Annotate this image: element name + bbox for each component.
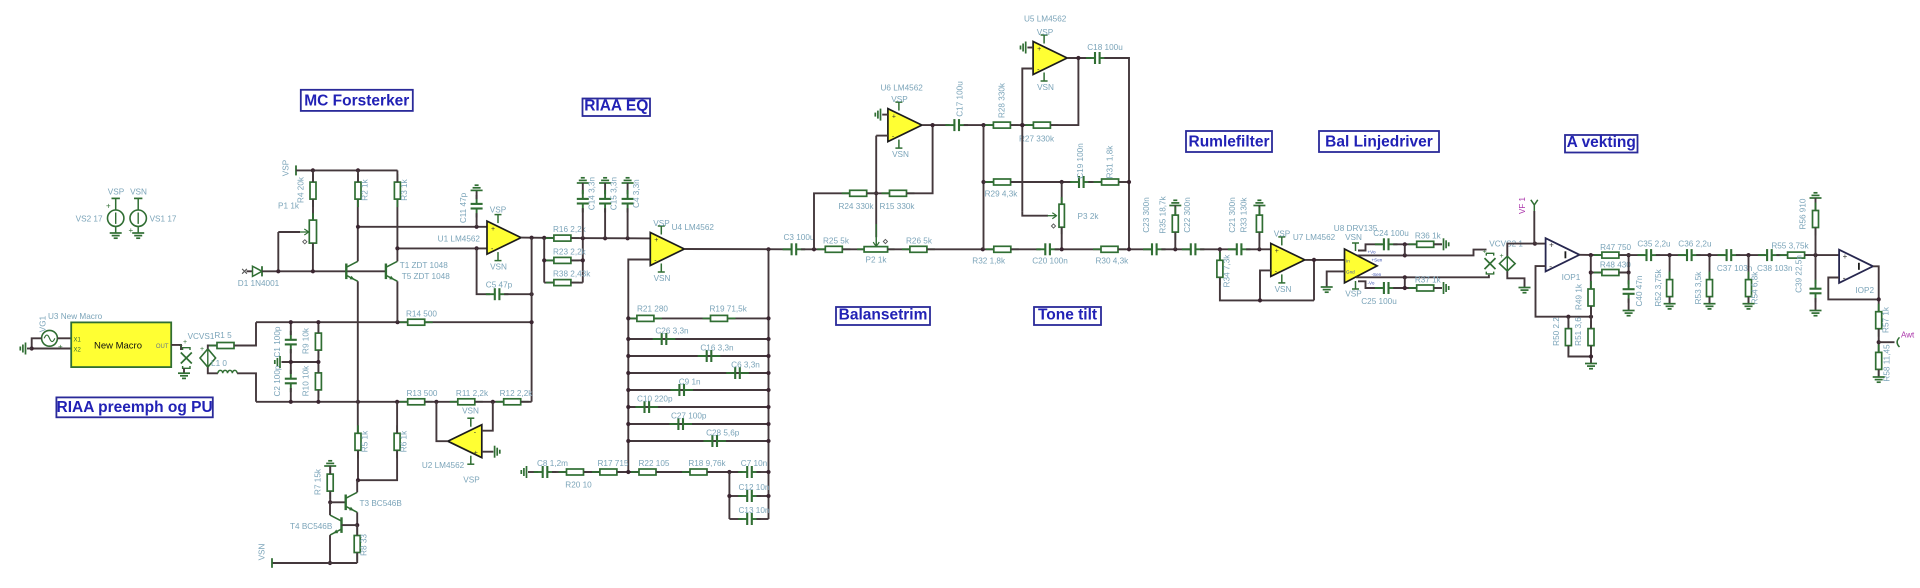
wire R28 to R27 bbox=[1011, 124, 1033, 126]
resistor R36 bbox=[1409, 241, 1442, 247]
svg-text:+: + bbox=[491, 226, 495, 233]
wire U8 -Vo to C25 bbox=[1358, 281, 1382, 288]
wire R56 top lead bbox=[1815, 198, 1817, 210]
junction bbox=[395, 320, 399, 324]
junction bbox=[395, 400, 399, 404]
label R30 4,3k bbox=[1096, 256, 1130, 265]
pot mark P3 bbox=[1051, 224, 1055, 228]
wire R51 bottom to ground bbox=[1590, 346, 1592, 363]
capacitor C13 bbox=[738, 513, 761, 525]
label C26 3,3n bbox=[655, 327, 689, 336]
svg-text:C40 47n: C40 47n bbox=[1635, 275, 1644, 306]
svg-text:A vekting: A vekting bbox=[1567, 134, 1636, 151]
svg-text:VG1: VG1 bbox=[39, 315, 48, 332]
svg-text:C28 5,6p: C28 5,6p bbox=[706, 429, 740, 438]
ground (R35) bbox=[1169, 200, 1181, 205]
label IOP2 bbox=[1855, 286, 1874, 295]
svg-text:U8 DRV135: U8 DRV135 bbox=[1334, 224, 1378, 233]
wire T4 base bbox=[342, 524, 358, 526]
svg-text:+: + bbox=[200, 346, 204, 353]
junction bbox=[356, 168, 360, 172]
controlled source input X (VCVS2) bbox=[1483, 249, 1496, 274]
label C16 3,3n bbox=[700, 344, 734, 353]
wire C12 right lead bbox=[757, 495, 769, 497]
wire R24 to R15 bbox=[867, 192, 889, 194]
junction bbox=[530, 320, 534, 324]
label R2 1k bbox=[361, 178, 370, 200]
junction bbox=[289, 400, 293, 404]
junction bbox=[981, 180, 985, 184]
pot mark P1 bbox=[303, 240, 307, 244]
wire VCVS1 to L1 bbox=[208, 367, 218, 373]
wire U5 output to C18 bbox=[1067, 57, 1091, 59]
wire ladder row C26 bbox=[628, 338, 768, 340]
capacitor C36 bbox=[1678, 249, 1701, 261]
junction bbox=[1173, 247, 1177, 251]
wire feedback up to output bbox=[1313, 260, 1315, 301]
junction bbox=[356, 400, 360, 404]
wire ladder right rail bbox=[768, 249, 770, 519]
label D1 1N4001 bbox=[238, 279, 280, 288]
svg-text:R30 4,3k: R30 4,3k bbox=[1096, 256, 1130, 265]
svg-text:-: - bbox=[1843, 273, 1846, 283]
wire C36 to C37 bbox=[1696, 254, 1725, 256]
label R10 10k bbox=[302, 365, 311, 396]
junction bbox=[766, 316, 770, 320]
label R31 1,8k bbox=[1106, 145, 1115, 179]
wire R32 to C20 bbox=[1011, 248, 1041, 250]
wire R3 node to U1 - input bbox=[397, 247, 487, 249]
wire P3 bottom lead bbox=[1061, 227, 1063, 249]
label R6 1k bbox=[399, 430, 408, 452]
svg-text:R53 3,5k: R53 3,5k bbox=[1694, 271, 1703, 305]
label R48 430 bbox=[1600, 261, 1631, 270]
label C40 47n bbox=[1635, 275, 1644, 306]
svg-text:R36 1k: R36 1k bbox=[1415, 231, 1442, 240]
label T3 BC546B bbox=[360, 499, 403, 508]
junction bbox=[766, 439, 770, 443]
junction bbox=[766, 470, 770, 474]
svg-text:-Vo: -Vo bbox=[1368, 281, 1375, 286]
svg-text:P1 1k: P1 1k bbox=[278, 201, 300, 210]
wire C12/C13 left vertical bbox=[728, 472, 730, 519]
label VSN (U4) bbox=[654, 274, 671, 283]
resistor R25 bbox=[817, 246, 850, 252]
junction bbox=[1627, 270, 1631, 274]
wire C25 to R37 bbox=[1393, 287, 1416, 289]
wire T4 collector up bbox=[329, 502, 331, 515]
label VSN (U5) bbox=[1037, 83, 1054, 92]
ground (R56) bbox=[1810, 193, 1822, 198]
label VS2 17 bbox=[76, 215, 103, 224]
label R54 6,8k bbox=[1751, 271, 1760, 305]
svg-text:-: - bbox=[1549, 261, 1552, 271]
label R15 330k bbox=[879, 202, 915, 211]
wire U7 - input to feedback rail bbox=[1260, 270, 1271, 300]
wire R51 top lead bbox=[1590, 317, 1592, 329]
wire C22 to C21 bbox=[1200, 248, 1236, 250]
svg-text:VSN: VSN bbox=[654, 274, 671, 283]
capacitor C8 bbox=[534, 466, 557, 478]
svg-text:R33 130k: R33 130k bbox=[1240, 197, 1249, 233]
label R9 10k bbox=[302, 327, 311, 354]
wire - input to C5 bbox=[477, 248, 491, 294]
svg-text:R55 3,75k: R55 3,75k bbox=[1771, 242, 1809, 251]
capacitor C11 bbox=[471, 195, 483, 218]
svg-text:+: + bbox=[1549, 240, 1554, 249]
junction bbox=[603, 236, 607, 240]
resistor R5 bbox=[355, 425, 361, 458]
svg-text:T5 ZDT 1048: T5 ZDT 1048 bbox=[402, 272, 451, 281]
wire T3 collector bbox=[356, 480, 358, 492]
wire C11 bottom lead bbox=[476, 213, 478, 227]
svg-text:C1 100p: C1 100p bbox=[273, 326, 282, 357]
svg-text:R50 2.2: R50 2.2 bbox=[1552, 317, 1561, 346]
svg-text:C22 300n: C22 300n bbox=[1183, 197, 1192, 233]
wire OUT to VCVS1 X bbox=[171, 345, 181, 350]
svg-text:+: + bbox=[1500, 253, 1504, 260]
svg-text:R32 1,8k: R32 1,8k bbox=[972, 256, 1006, 265]
wire bottom rail left part bbox=[256, 401, 407, 403]
label VSN (U1) bbox=[490, 263, 507, 272]
junction bbox=[626, 236, 630, 240]
label VSP rail bbox=[282, 159, 291, 176]
label VSN (U8) bbox=[1345, 233, 1362, 242]
label R1 5 bbox=[214, 331, 232, 340]
svg-text:VSP: VSP bbox=[891, 95, 908, 104]
wire C37 to C38 bbox=[1736, 254, 1766, 256]
section label A vekting bbox=[1565, 134, 1638, 153]
label VG1 bbox=[39, 315, 48, 332]
svg-text:VSN: VSN bbox=[1345, 233, 1362, 242]
junction bbox=[626, 388, 630, 392]
label VCVS1 bbox=[188, 332, 215, 341]
label R3 1k bbox=[400, 178, 409, 200]
wire R16 row to U4 + input bbox=[571, 237, 650, 239]
resistor R19 bbox=[703, 315, 736, 321]
capacitor C37 bbox=[1718, 249, 1741, 261]
resistor R27 bbox=[1025, 122, 1058, 128]
wire T5 collector to R3 bbox=[396, 199, 398, 261]
wire R34 top lead bbox=[1219, 249, 1221, 260]
ground (R54) bbox=[1743, 304, 1755, 309]
svg-text:C19 100n: C19 100n bbox=[1076, 143, 1085, 179]
wire U4 - input down ladder left rail bbox=[628, 260, 650, 473]
resistor R7 bbox=[327, 466, 333, 499]
wire R7 top lead bbox=[329, 466, 331, 474]
svg-text:C35 2,2u: C35 2,2u bbox=[1637, 240, 1671, 249]
resistor R23 bbox=[546, 257, 579, 263]
svg-text:VSN: VSN bbox=[462, 406, 479, 415]
voltage source VS1 bbox=[129, 198, 147, 235]
wire R10 bottom lead bbox=[317, 390, 319, 402]
svg-text:R2 1k: R2 1k bbox=[361, 178, 370, 200]
junction bbox=[1020, 123, 1024, 127]
svg-text:R11 2,2k: R11 2,2k bbox=[456, 389, 489, 398]
wire C14 bottom lead bbox=[582, 208, 584, 238]
wire to R29 bbox=[984, 181, 994, 183]
wire R54 top lead bbox=[1748, 255, 1750, 279]
wire R58 to ground bbox=[1878, 370, 1880, 377]
junction bbox=[316, 320, 320, 324]
label VSP (U6) bbox=[891, 95, 908, 104]
svg-text:R52 3,75k: R52 3,75k bbox=[1654, 268, 1663, 306]
svg-text:R19 71,5k: R19 71,5k bbox=[710, 305, 748, 314]
svg-text:C6 3,3n: C6 3,3n bbox=[731, 361, 760, 370]
wire R8 top lead bbox=[356, 525, 358, 535]
wire R15 to U6 output node bbox=[907, 125, 933, 193]
label C3 100u bbox=[784, 233, 815, 242]
wire IOP2 output down bbox=[1873, 266, 1879, 311]
svg-text:P2 1k: P2 1k bbox=[866, 256, 888, 265]
label VSP (U7) bbox=[1274, 230, 1291, 239]
svg-text:+Vo: +Vo bbox=[1368, 250, 1376, 255]
svg-text:U6 LM4562: U6 LM4562 bbox=[881, 83, 924, 92]
svg-text:VSP: VSP bbox=[1037, 28, 1054, 37]
label R25 5k bbox=[823, 237, 850, 246]
label R17 715 bbox=[598, 459, 629, 468]
svg-text:Gnd: Gnd bbox=[1346, 270, 1355, 275]
svg-text:C39 22,5n: C39 22,5n bbox=[1795, 255, 1804, 293]
label C35 2,2u bbox=[1637, 240, 1671, 249]
ground (R37) bbox=[1444, 282, 1449, 294]
wire left vertical (C17 node down) bbox=[983, 125, 985, 249]
junction bbox=[356, 225, 360, 229]
svg-text:R3 1k: R3 1k bbox=[400, 178, 409, 200]
svg-text:R13 500: R13 500 bbox=[407, 389, 438, 398]
wire IOP1 - input to feedback rail bbox=[1536, 266, 1592, 317]
svg-text:C17 100u: C17 100u bbox=[956, 81, 965, 117]
svg-text:VSN: VSN bbox=[1275, 285, 1292, 294]
svg-text:T4 BC546B: T4 BC546B bbox=[290, 522, 333, 531]
junction bbox=[1589, 315, 1593, 319]
svg-text:R27 330k: R27 330k bbox=[1019, 135, 1055, 144]
resistor R49 bbox=[1588, 281, 1594, 314]
section label RIAA preemph og PU bbox=[56, 397, 212, 417]
wire R2 node to U1 + input bbox=[358, 226, 487, 228]
junction bbox=[727, 470, 731, 474]
wire C4 bottom lead bbox=[627, 208, 629, 238]
resistor R33 bbox=[1256, 207, 1262, 240]
label VSN (VS1) bbox=[130, 188, 147, 197]
transistor T5 bbox=[386, 261, 398, 281]
label C38 103n bbox=[1757, 264, 1793, 273]
wire C1 top lead bbox=[290, 322, 292, 335]
wire C13 left lead bbox=[729, 518, 742, 520]
transistor T3 bbox=[346, 492, 358, 512]
capacitor C12 bbox=[738, 490, 761, 502]
svg-text:R24 330k: R24 330k bbox=[838, 202, 874, 211]
resistor R8 bbox=[354, 528, 360, 561]
wire R5 to T3 collector node bbox=[357, 451, 359, 481]
ground (R7) bbox=[324, 461, 336, 466]
svg-text:R25 5k: R25 5k bbox=[823, 237, 850, 246]
svg-text:R6 1k: R6 1k bbox=[399, 430, 408, 452]
svg-text:R31 1,8k: R31 1,8k bbox=[1106, 145, 1115, 179]
wire U2 - input up bbox=[482, 402, 493, 431]
label R34 7,3k bbox=[1223, 254, 1232, 288]
wire P1 bottom lead bbox=[312, 243, 314, 271]
junction bbox=[874, 191, 878, 195]
svg-text:U7 LM4562: U7 LM4562 bbox=[1293, 233, 1336, 242]
wire C17 to R28 bbox=[964, 124, 994, 126]
svg-text:VSP: VSP bbox=[463, 475, 480, 484]
wire R50 top lead bbox=[1567, 317, 1569, 329]
label C37 103n bbox=[1717, 264, 1753, 273]
wire T4 emitter down bbox=[329, 535, 331, 563]
svg-text:C11 47p: C11 47p bbox=[459, 192, 468, 223]
resistor R55 bbox=[1780, 252, 1813, 258]
wire C39 top lead bbox=[1815, 255, 1817, 284]
svg-text:C10 220p: C10 220p bbox=[637, 395, 673, 404]
svg-text:C38 103n: C38 103n bbox=[1757, 264, 1793, 273]
svg-text:U5 LM4562: U5 LM4562 bbox=[1024, 15, 1067, 24]
resistor R11 bbox=[450, 399, 483, 405]
wire P2 wiper up to U6 - node bbox=[875, 136, 877, 238]
svg-text:C3 100u: C3 100u bbox=[784, 233, 815, 242]
resistor R6 bbox=[394, 425, 400, 458]
label C39 22,5n bbox=[1795, 255, 1804, 293]
svg-text:C9 1n: C9 1n bbox=[679, 378, 701, 387]
svg-text:VCVS1: VCVS1 bbox=[188, 332, 215, 341]
wire U6 output to C17 bbox=[922, 124, 950, 126]
svg-text:C16 3,3n: C16 3,3n bbox=[700, 344, 734, 353]
junction bbox=[1060, 247, 1064, 251]
capacitor C22 bbox=[1182, 243, 1205, 255]
junction bbox=[766, 422, 770, 426]
resistor R14 bbox=[400, 319, 433, 325]
resistor R54 bbox=[1746, 272, 1752, 305]
ground (middle rail) bbox=[275, 356, 280, 368]
junction bbox=[1627, 253, 1631, 257]
junction bbox=[1127, 247, 1131, 251]
junction bbox=[981, 123, 985, 127]
label U5 LM4562 bbox=[1024, 15, 1067, 24]
resistor R47 bbox=[1594, 252, 1627, 258]
wire VCVS2 bottom to ground bbox=[1507, 271, 1524, 287]
wire main row up to R24 bbox=[814, 193, 850, 249]
wire VCVS2 to IOP1 + node bbox=[1507, 244, 1535, 256]
resistor R15 bbox=[882, 190, 915, 196]
ground (R53) bbox=[1704, 304, 1716, 309]
label VSP (U4) bbox=[653, 219, 670, 228]
capacitor C24 bbox=[1375, 238, 1398, 250]
resistor R53 bbox=[1707, 272, 1713, 305]
capacitor C10 bbox=[636, 401, 659, 413]
wire R18 to C7 bbox=[707, 471, 742, 473]
junction bbox=[30, 346, 34, 350]
capacitor C14 bbox=[577, 190, 589, 213]
label C28 5,6p bbox=[706, 429, 740, 438]
label C5 47p bbox=[486, 280, 513, 289]
wire C20 to R30 bbox=[1055, 248, 1101, 250]
wire R25 to P2 bbox=[843, 248, 865, 250]
wire U4 output to C3 bbox=[684, 248, 792, 250]
wire R26 to R32 bbox=[927, 248, 993, 250]
svg-text:VF 1: VF 1 bbox=[1518, 197, 1527, 214]
junction bbox=[1312, 258, 1316, 262]
junction bbox=[626, 316, 630, 320]
junction bbox=[289, 320, 293, 324]
svg-text:R54 6,8k: R54 6,8k bbox=[1751, 271, 1760, 305]
wiper connection arrow segment bbox=[875, 224, 877, 246]
svg-text:VSN: VSN bbox=[130, 188, 147, 197]
label R26 5k bbox=[906, 237, 933, 246]
resistor R28 bbox=[985, 122, 1018, 128]
resistor R10 bbox=[315, 365, 321, 398]
junction bbox=[356, 478, 360, 482]
resistor R31 bbox=[1094, 179, 1127, 185]
label VSN (U2) bbox=[462, 406, 479, 415]
wire R9 top lead bbox=[317, 322, 319, 333]
terminal VSP (rail) bbox=[295, 165, 297, 175]
wire T1 collector to R2 bbox=[357, 199, 359, 261]
wire U5 + input stub bbox=[1027, 47, 1033, 49]
label R20 10 bbox=[565, 480, 592, 489]
wire C3 to R25 bbox=[801, 248, 825, 250]
resistor R26 bbox=[902, 246, 935, 252]
voltage generator VG1 bbox=[42, 330, 63, 351]
svg-text:R57 1k: R57 1k bbox=[1881, 306, 1890, 333]
wire R9-R10 leads bbox=[317, 350, 319, 372]
svg-text:C20 100n: C20 100n bbox=[1032, 256, 1068, 265]
wire C23 to C22 bbox=[1161, 248, 1190, 250]
wire R53 top lead bbox=[1709, 255, 1711, 279]
junction bbox=[812, 247, 816, 251]
svg-text:R56 910: R56 910 bbox=[1799, 198, 1808, 229]
svg-text:RIAA EQ: RIAA EQ bbox=[584, 98, 648, 115]
label VCVS2 1 bbox=[1489, 240, 1523, 249]
svg-text:R21 280: R21 280 bbox=[637, 305, 668, 314]
wire R33 top lead bbox=[1258, 206, 1260, 215]
wire C18 down right vertical bbox=[1104, 58, 1129, 249]
capacitor C23 bbox=[1143, 243, 1166, 255]
wire to R48 bbox=[1591, 272, 1602, 274]
ground (U5 +) bbox=[1021, 42, 1026, 54]
junction bbox=[395, 246, 399, 250]
resistor R13 bbox=[400, 399, 433, 405]
label C17 100u bbox=[956, 81, 965, 117]
svg-text:C27 100p: C27 100p bbox=[671, 412, 707, 421]
svg-text:C12 10n: C12 10n bbox=[739, 483, 770, 492]
capacitor C21 bbox=[1228, 243, 1251, 255]
wire feedback vertical (U1 out / R14 / C5 / R12) bbox=[531, 238, 533, 402]
svg-text:IOP1: IOP1 bbox=[1562, 273, 1581, 282]
wire gnd to C8 bbox=[528, 471, 538, 473]
svg-text:R14 500: R14 500 bbox=[406, 310, 437, 319]
label R58 11,45 bbox=[1882, 344, 1891, 382]
wire C13 right lead bbox=[757, 518, 769, 520]
label C9 1n bbox=[679, 378, 701, 387]
svg-text:VSN: VSN bbox=[892, 150, 909, 159]
label C22 300n bbox=[1183, 197, 1192, 233]
junction bbox=[1668, 253, 1672, 257]
section label Bal Linjedriver bbox=[1319, 131, 1439, 152]
junction bbox=[766, 371, 770, 375]
svg-text:C8 1,2m: C8 1,2m bbox=[537, 459, 568, 468]
wiper arrow P2 bbox=[873, 237, 879, 246]
label R47 750 bbox=[1600, 243, 1631, 252]
svg-text:+: + bbox=[1843, 252, 1848, 261]
junction bbox=[766, 247, 770, 251]
label VSP (U2) bbox=[463, 475, 480, 484]
wire R48 right to main row bbox=[1619, 255, 1628, 272]
svg-text:R5 1k: R5 1k bbox=[360, 430, 369, 452]
wire VCVS1 to R1 bbox=[208, 346, 217, 349]
svg-text:P3 2k: P3 2k bbox=[1078, 212, 1100, 221]
junction bbox=[1877, 297, 1881, 301]
wire R23 right lead bbox=[571, 259, 583, 261]
